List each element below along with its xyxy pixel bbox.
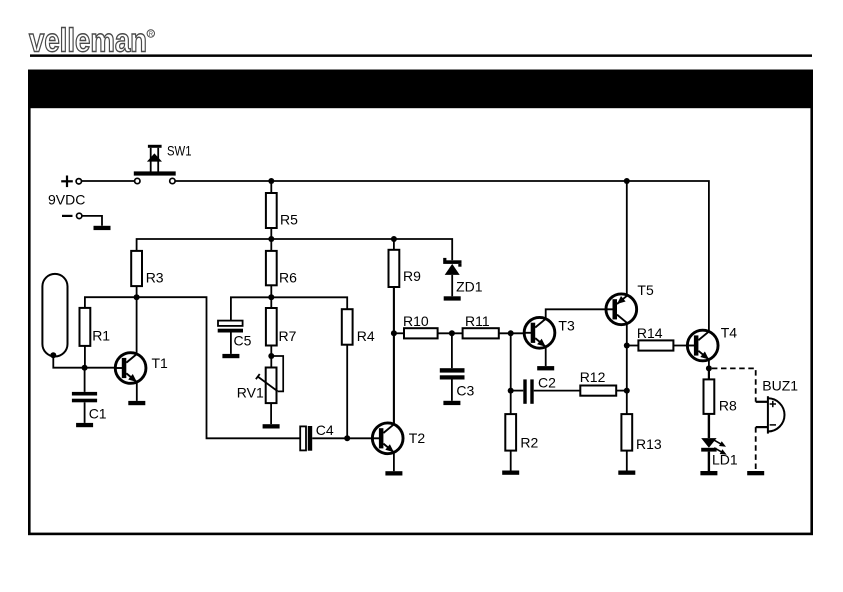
resistor R4 [342,309,375,345]
transistor T4 [687,325,738,361]
svg-text:R1: R1 [92,328,110,344]
svg-text:R9: R9 [403,268,421,284]
wire T5 collector to R14 node [626,324,628,346]
ground (ZD1) [444,296,461,300]
wire row3 C5-R7-R4 [231,297,347,320]
svg-text:C3: C3 [456,382,474,398]
ground (RV1) [263,424,280,428]
wire node to R8 [708,368,710,379]
wire R9 node to R10 [394,332,404,334]
wire R9 to row4 and T2 collector [393,287,395,424]
capacitor C5 [218,321,252,349]
svg-text:R5: R5 [280,212,298,228]
svg-text:BUZ1: BUZ1 [762,378,798,394]
wire R4 to C4/T2 node [346,345,348,439]
wire top rail to T4 collector [175,181,709,332]
wire R2 to ground [510,451,512,471]
svg-text:R3: R3 [146,270,164,286]
svg-text:R8: R8 [719,398,737,414]
wire C3 to ground [451,380,453,401]
svg-text:C2: C2 [538,375,556,391]
svg-text:R7: R7 [279,328,297,344]
svg-text:LD1: LD1 [712,452,738,468]
wire ZD1 to ground [451,275,453,296]
svg-text:R6: R6 [279,270,297,286]
velleman logo [29,22,155,59]
wire R14 node down to R13 [626,346,628,415]
svg-text:T5: T5 [637,282,654,298]
zener diode ZD1 [443,258,483,295]
wire (dashed) BUZ1 - to ground [755,427,757,471]
wire R12 to R13 node [616,390,627,392]
microphone MIC [42,274,67,358]
resistor R2 [505,414,538,451]
wire row2 to R9 [393,239,395,250]
resistor R13 [621,414,661,452]
buzzer BUZ1 [762,378,798,434]
ground (T3) [537,366,554,370]
junction R12/R13 [624,388,630,394]
ground (C3) [443,401,460,405]
svg-text:C4: C4 [316,422,334,438]
resistor R14 [637,325,674,351]
wire C5 to ground [230,333,232,354]
svg-text:RV1: RV1 [237,385,264,401]
svg-text:R14: R14 [637,325,663,341]
capacitor C4 [300,422,334,451]
resistor R8 [704,379,738,414]
wire LD1 to ground [708,452,710,471]
svg-text:T3: T3 [558,317,575,333]
junction top rail / T5 emitter [624,178,630,184]
transistor T3 [524,317,575,348]
black title bar [28,70,813,109]
ground (battery -) [94,226,111,230]
wire T4 emitter to node [708,360,710,369]
junction R5/R6/row2 [268,236,274,242]
wire R10 to R11 [438,332,463,334]
ground (T2) [385,471,402,475]
resistor R1 [80,308,111,346]
resistor R5 [266,193,298,228]
svg-text:R: R [149,32,154,38]
svg-text:9VDC: 9VDC [48,192,85,208]
svg-text:R13: R13 [636,436,662,452]
ground (BUZ1) [747,471,764,475]
junction mic/R1/C1 [82,365,88,371]
transistor T2 [372,423,426,454]
wire T3 collector to T5 base [546,309,606,319]
wire R3 to T1 collector [136,286,138,354]
LED LD1 [701,438,738,467]
wire node to R14 [627,345,639,347]
ground (T1) [128,401,145,405]
junction R9/R10/T2 collector [391,330,397,336]
ground (C5) [222,354,239,358]
junction R11/T3/C2 branch [508,330,514,336]
junction C4/R4/T2 [344,435,350,441]
junction row2 / R9 [391,236,397,242]
svg-text:T1: T1 [152,355,169,371]
svg-text:T2: T2 [409,430,426,446]
resistor R12 [580,369,617,396]
junction row3 / R6 / R7 [268,294,274,300]
wire T3 base node down to R2 [510,333,512,414]
wire R6 to R7 [270,285,272,308]
resistor R10 [403,313,438,338]
wire BUZ1 + stub [756,401,768,403]
svg-text:SW1: SW1 [167,143,192,159]
wire row4 to C3 [451,333,453,368]
svg-text:R11: R11 [465,313,490,329]
capacitor C3 [440,368,475,398]
wire R13 to ground [626,451,628,471]
resistor R9 [389,250,422,287]
svg-text:C1: C1 [89,406,107,422]
node + terminal 9VDC [61,176,81,188]
wire BUZ1 - stub [756,426,768,428]
resistor R11 [463,313,499,338]
junction R7 / RV1 wiper [268,353,274,359]
ground (C1) [76,423,93,427]
trimmer RV1 [237,356,283,403]
transistor T1 [115,353,168,384]
wire mic to T1 base [53,355,115,368]
node - terminal 9VDC [62,213,82,218]
svg-text:ZD1: ZD1 [456,279,483,295]
wire R1 to base node [84,346,86,368]
svg-text:C5: C5 [234,333,252,349]
svg-text:R4: R4 [357,328,375,344]
resistor R7 [266,308,297,346]
junction top rail / R5 [268,178,274,184]
wire R8 to LD1 [708,414,710,438]
capacitor C1 [72,392,107,422]
wire C1 to ground [84,402,86,423]
wire node A to C4 [85,297,300,438]
wire RV1 to ground [270,403,272,424]
wire base node to C1 [84,368,86,392]
wire C4 to T2 base [312,437,372,439]
ground (LD1) [700,471,717,475]
wire - terminal to ground [82,216,102,226]
junction R10/R11/C3 [449,330,455,336]
svg-text:R2: R2 [520,434,538,450]
ground (R13) [618,471,635,475]
capacitor C2 [523,375,556,404]
wire R5 to R6 [270,228,272,251]
junction T4 emitter/R8/BUZ1 [706,365,712,371]
junction T5/R14 [624,343,630,349]
wire + terminal to SW1 [82,180,135,182]
wire node to C2 [511,390,524,392]
transistor T5 (PNP) [605,282,654,325]
svg-text:T4: T4 [721,325,738,341]
switch SW1 [134,143,192,184]
svg-text:velleman: velleman [29,22,147,59]
ground (R2) [502,471,519,475]
svg-text:R10: R10 [403,313,429,329]
junction C2/R2 [508,388,514,394]
svg-text:R12: R12 [580,369,606,385]
logo underline rule [30,54,812,57]
resistor R6 [266,251,297,286]
wire (dashed) T4 emitter to BUZ1 + [712,368,756,401]
resistor R3 [131,251,164,286]
wire T3 emitter to ground [545,347,547,366]
wire C2 to R12 [534,390,581,392]
wire rail to T5 emitter [626,181,628,295]
wire T2 emitter to ground [393,452,395,471]
wire row2 R3-R5-R9-ZD1 [137,239,453,260]
junction R3 / T1 collector / node A [134,294,140,300]
wire T1 emitter to ground [136,382,138,401]
wire R7 to RV1 [270,346,272,368]
schematic frame [29,71,811,534]
wire R11 to T3 base [499,332,525,334]
wire R14 to T4 base [673,345,688,347]
wire rail to R5 [270,181,272,193]
